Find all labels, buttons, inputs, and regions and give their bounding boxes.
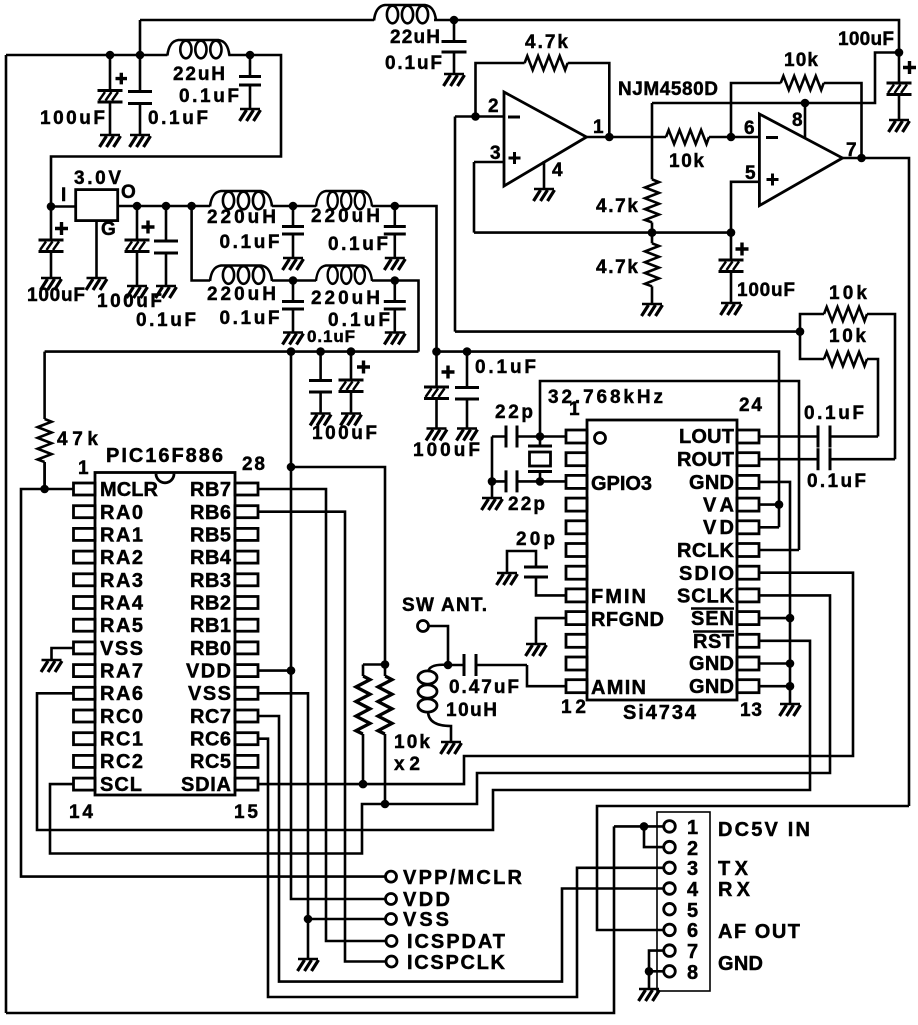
svg-text:RB6: RB6	[190, 502, 231, 524]
svg-text:4.7k: 4.7k	[525, 32, 568, 53]
capacitor 100uF electrolytic at regulator output	[136, 206, 139, 285]
svg-text:SCL: SCL	[100, 774, 142, 796]
svg-text:4.7k: 4.7k	[596, 196, 638, 217]
wire: +5V horizontal rail y=55 left segment	[6, 54, 167, 57]
svg-text:VSS: VSS	[403, 909, 449, 931]
inductor 220uH L6 row2	[316, 266, 372, 284]
svg-text:1: 1	[593, 117, 604, 138]
wire: riser joining top rail y=20 to y=55 rail	[139, 20, 142, 55]
svg-text:0.1uF: 0.1uF	[307, 327, 355, 346]
wire: RC7 to connector RX	[258, 716, 663, 982]
svg-text:RC2: RC2	[100, 751, 143, 773]
svg-text:0.1uF: 0.1uF	[220, 308, 280, 329]
wire: AF OUT run to connector pin6	[597, 806, 909, 930]
svg-text:24: 24	[739, 395, 762, 416]
wire: op1 pin4 to ground	[543, 161, 546, 188]
terminal VPP/MCLR circle	[386, 871, 397, 882]
svg-text:ROUT: ROUT	[677, 449, 734, 471]
svg-text:ICSPCLK: ICSPCLK	[407, 952, 506, 974]
svg-text:RA4: RA4	[100, 593, 144, 615]
capacitor 100uF electrolytic at top right	[898, 53, 901, 120]
plus sign	[55, 222, 68, 235]
wire: 0.47uF to AMIN	[527, 665, 566, 686]
capacitor 100uF electrolytic bias decoupling	[730, 233, 733, 302]
svg-text:32.768kHz: 32.768kHz	[548, 387, 663, 408]
svg-text:14: 14	[69, 802, 93, 823]
label minus op2	[766, 136, 778, 139]
capacitor 0.1uF on VA rail x=467	[466, 352, 469, 428]
connector pin circles	[664, 821, 676, 977]
svg-text:RA2: RA2	[100, 547, 143, 569]
wire: VDD riser x=291	[291, 352, 386, 899]
wire: crystal bottom to GPIO3 pin	[540, 480, 566, 483]
terminal SW ANT. circle	[418, 621, 429, 632]
svg-text:100uF: 100uF	[838, 29, 894, 50]
svg-text:Si4734: Si4734	[623, 702, 697, 724]
svg-text:RC0: RC0	[100, 706, 143, 728]
ground	[426, 429, 447, 441]
capacitor 0.1uF row2 at x=394.8	[393, 281, 396, 332]
Si4734 left pin boxes	[566, 430, 587, 693]
svg-text:6: 6	[687, 920, 698, 942]
svg-text:10k: 10k	[829, 283, 867, 304]
label plus op1	[509, 152, 521, 164]
resistor 4.7k feedback op1	[525, 56, 568, 70]
inductor 220uH L5 row2	[210, 266, 272, 284]
svg-text:22p: 22p	[495, 402, 533, 423]
svg-text:AF OUT: AF OUT	[718, 921, 800, 943]
svg-text:0.1uF: 0.1uF	[179, 86, 239, 107]
terminal VSS circle	[386, 914, 397, 925]
svg-text:NJM4580D: NJM4580D	[618, 79, 718, 100]
svg-text:GND: GND	[689, 676, 734, 698]
svg-text:SEN: SEN	[691, 608, 734, 630]
capacitor 100uF electrolytic on VDD rail x=351	[350, 352, 353, 413]
terminal VDD circle	[386, 894, 397, 905]
svg-text:6: 6	[744, 118, 755, 139]
capacitor 0.1uF ROUT coupling	[818, 448, 830, 470]
wire: Si pin1 to crystal node	[540, 435, 566, 438]
svg-text:0.1uF: 0.1uF	[807, 471, 866, 492]
wire: op2 feedback loop left riser	[731, 83, 781, 137]
svg-text:VD: VD	[703, 517, 734, 539]
capacitor 0.1uF on VDD rail x=320.6	[319, 352, 322, 413]
svg-text:4: 4	[687, 879, 699, 901]
inductor 220uH L4 row1	[316, 191, 372, 209]
svg-text:10uH: 10uH	[446, 700, 497, 721]
svg-text:RA0: RA0	[100, 502, 143, 524]
wire: PIC left VSS to ground	[52, 648, 74, 659]
wire: antenna to LC node	[429, 626, 449, 665]
op-amp U1A triangle	[504, 92, 587, 186]
svg-text:0.47uF: 0.47uF	[449, 677, 519, 698]
capacitor 100uF electrolytic at top left	[109, 55, 112, 134]
svg-text:2: 2	[687, 838, 698, 860]
svg-text:RB4: RB4	[190, 547, 232, 569]
wire: RCLK pin	[759, 549, 799, 552]
svg-text:SCLK: SCLK	[677, 586, 735, 608]
wire: 47k bottom to MCLR	[43, 462, 46, 489]
svg-text:PIC16F886: PIC16F886	[106, 445, 223, 467]
svg-text:RC6: RC6	[190, 729, 231, 751]
wire: RC6 to connector TX	[258, 739, 663, 997]
wire: bias node bus y=232.6	[474, 231, 731, 234]
svg-text:10k: 10k	[829, 326, 866, 347]
plus sign	[142, 221, 155, 234]
capacitor 0.1uF after L1 at x=250	[249, 55, 252, 108]
ground	[130, 135, 151, 147]
regulator U2 3.0V box	[76, 190, 118, 221]
wire: SDIO net staircase to PIC SDIA	[258, 573, 853, 784]
wire: RST net staircase to PIC RA6	[37, 641, 810, 830]
svg-text:RA6: RA6	[100, 683, 143, 705]
label minus op1	[508, 116, 520, 119]
wire: lower divider to ground	[651, 286, 654, 303]
wire: SEN tie to ground rail	[759, 617, 790, 620]
svg-text:RST: RST	[693, 631, 734, 653]
wire: Si GND pin3 riser to grounds	[759, 482, 790, 703]
svg-text:ICSPDAT: ICSPDAT	[407, 931, 505, 953]
wire: regulator output rail y=206	[118, 205, 210, 208]
wire: LOUT cap to riser	[830, 435, 878, 438]
svg-text:GND: GND	[718, 953, 763, 975]
svg-text:47k: 47k	[57, 429, 98, 450]
svg-text:5: 5	[687, 900, 698, 922]
svg-text:RB1: RB1	[190, 615, 231, 637]
svg-text:220uH: 220uH	[207, 284, 276, 305]
wire: summing node down to 10k lower	[800, 332, 824, 359]
resistor 10k lower (LOUT)	[824, 352, 867, 366]
svg-text:0.1uF: 0.1uF	[220, 232, 280, 253]
capacitor 0.1uF row1 at x=394.8	[393, 206, 396, 257]
svg-text:RC7: RC7	[190, 706, 231, 728]
svg-text:RA5: RA5	[100, 615, 143, 637]
wire: 10k upper right side down to ROUT cap	[867, 314, 895, 459]
wire: VA rail y=351.6 from row1 riser to Si4734 VA	[437, 352, 780, 528]
svg-text:VDD: VDD	[403, 889, 450, 911]
svg-text:RCLK: RCLK	[677, 540, 735, 562]
svg-text:100uF: 100uF	[97, 291, 162, 312]
svg-text:3.0V: 3.0V	[74, 168, 121, 189]
ground	[127, 286, 148, 298]
svg-text:RB7: RB7	[190, 479, 231, 501]
connector J1 box	[657, 812, 710, 991]
resistor 10k upper (ROUT)	[824, 307, 867, 321]
ground	[384, 333, 405, 345]
capacitor 22p lower	[492, 480, 540, 483]
capacitor 0.1uF row1 at x=293	[292, 206, 295, 257]
svg-text:RB2: RB2	[190, 593, 231, 615]
svg-text:220uH: 220uH	[311, 206, 380, 227]
ground	[310, 414, 331, 426]
svg-text:RC5: RC5	[190, 751, 231, 773]
svg-text:RA7: RA7	[100, 661, 143, 683]
svg-text:GPIO3: GPIO3	[591, 473, 652, 495]
svg-text:100uF: 100uF	[737, 280, 795, 301]
ground	[240, 109, 261, 121]
ground	[283, 333, 304, 345]
wire: LOUT pin to coupling cap	[759, 435, 818, 438]
ground	[86, 278, 107, 290]
terminal ICSPDAT circle	[386, 936, 397, 947]
wire: DC5V to pin1	[614, 825, 664, 828]
IC U3 Si4734 body	[587, 420, 737, 700]
ground	[721, 303, 742, 315]
wire: RB7 to ICSPDAT	[258, 489, 386, 941]
wire: row2 feed riser from row1	[192, 206, 210, 281]
wire: VDD rail y=351.6 (PIC side)	[45, 350, 419, 353]
ground	[41, 278, 62, 290]
svg-text:SW ANT.: SW ANT.	[402, 595, 487, 616]
IC U4 PIC16F886 body	[95, 473, 235, 796]
wire: top +5V rail y=20 left segment	[140, 19, 374, 22]
svg-text:10k: 10k	[784, 50, 818, 71]
wire: SCLK net staircase to PIC SCL	[50, 595, 830, 853]
svg-text:SDIA: SDIA	[181, 774, 231, 796]
wire: op2 output to right edge riser	[843, 158, 910, 806]
ground	[441, 742, 462, 754]
wire: feedback right down to output	[824, 83, 862, 158]
ground	[889, 120, 910, 132]
svg-text:22uH: 22uH	[390, 27, 440, 48]
svg-text:RC1: RC1	[100, 729, 143, 751]
capacitor 100uF electrolytic on VA rail x=436.5	[435, 352, 438, 428]
capacitor 0.1uF LOUT coupling	[818, 426, 830, 448]
svg-text:12: 12	[561, 697, 586, 718]
svg-text:RB3: RB3	[190, 570, 231, 592]
wire: VA pin	[759, 503, 779, 506]
ground	[283, 258, 304, 270]
wire: bottom +5V rail to connector pin1 riser	[6, 826, 614, 1013]
ground	[482, 498, 503, 510]
resistor 10k feedback op2	[781, 76, 824, 90]
wire: GND pin11 tie	[759, 662, 790, 665]
svg-text:220uH: 220uH	[207, 207, 276, 228]
svg-text:RX: RX	[718, 879, 751, 901]
wire: pin1-pin2 tie	[644, 826, 664, 847]
wire: MCLR net to VPP terminal	[21, 489, 386, 877]
svg-text:RFGND: RFGND	[591, 609, 664, 631]
svg-text:VSS: VSS	[188, 683, 231, 705]
svg-text:8: 8	[687, 962, 698, 984]
ground	[384, 258, 405, 270]
resistor 10k pull-up left (SDA)	[362, 665, 365, 785]
resistor 4.7k lower bias divider	[645, 243, 659, 286]
wire: rail after L1 to corner down to regulator input loop	[51, 55, 281, 207]
wire: V+ branch down to bias divider top	[651, 103, 654, 179]
capacitor 100uF electrolytic at regulator input	[50, 207, 53, 278]
ground	[497, 573, 518, 585]
ground	[457, 429, 478, 441]
wire: ROUT pin to coupling cap	[759, 458, 818, 461]
wire: crystal node riser to RCLK loop	[540, 381, 799, 550]
overline RST	[693, 630, 734, 633]
wire: VD pin	[759, 526, 779, 529]
wire: row2 to corner riser into VDD rail	[372, 281, 419, 352]
svg-text:I: I	[61, 185, 66, 206]
inductor 22uH L1	[167, 40, 229, 58]
wire: op1 pin3 riser to bias node	[473, 162, 476, 233]
ground	[642, 304, 663, 316]
svg-text:22uH: 22uH	[173, 64, 225, 85]
pin1 index circle	[595, 433, 606, 444]
wire: ROUT cap to riser	[830, 458, 895, 461]
svg-text:15: 15	[234, 802, 258, 823]
resistor 47k pull-up	[43, 352, 46, 489]
svg-text:RA3: RA3	[100, 570, 143, 592]
svg-text:100uF: 100uF	[27, 285, 85, 306]
PIC16F886 left pin boxes	[74, 483, 96, 790]
svg-text:G: G	[101, 219, 116, 240]
svg-text:20p: 20p	[516, 529, 555, 550]
svg-text:100uF: 100uF	[413, 440, 480, 461]
wire: pull-up tops to VDD riser	[291, 467, 385, 665]
wire: op1 output to 10k	[587, 136, 667, 139]
overline SEN	[691, 607, 734, 610]
svg-text:0.1uF: 0.1uF	[475, 357, 536, 378]
svg-text:FMIN: FMIN	[591, 586, 646, 608]
svg-text:10k: 10k	[669, 151, 704, 172]
svg-text:GND: GND	[689, 472, 734, 494]
svg-text:100uF: 100uF	[40, 108, 105, 129]
wire: regulator input	[51, 205, 76, 208]
ground	[341, 414, 362, 426]
svg-text:3: 3	[687, 858, 698, 880]
svg-text:7: 7	[687, 941, 698, 963]
wire: op1 feedback loop	[476, 63, 525, 117]
wire: from 100uF node left and down to op-amp V+ feed y=103	[652, 53, 899, 104]
wire: pin7-pin8 tie to ground	[649, 951, 664, 972]
wire: top rail after L2 to top-right corner down to 100uF node	[434, 20, 899, 53]
plus sign for 100uF	[116, 73, 128, 85]
wire: 22p junction to ground	[491, 481, 494, 497]
svg-text:22p: 22p	[508, 494, 545, 515]
Si4734 right pin boxes	[737, 430, 759, 693]
svg-text:TX: TX	[718, 858, 749, 880]
ground	[444, 74, 465, 86]
svg-text:DC5V IN: DC5V IN	[718, 819, 810, 841]
wire: 10k to op2 pin6	[709, 136, 759, 139]
wire: op1 input riser from summing bus	[454, 117, 457, 332]
svg-text:RB5: RB5	[190, 525, 231, 547]
plus sign	[903, 61, 916, 74]
svg-text:4: 4	[552, 160, 563, 181]
svg-text:220uH: 220uH	[311, 288, 380, 309]
svg-text:O: O	[121, 182, 136, 203]
svg-text:0.1uF: 0.1uF	[328, 234, 388, 255]
svg-text:28: 28	[242, 454, 265, 475]
svg-text:MCLR: MCLR	[100, 479, 159, 501]
svg-text:AMIN: AMIN	[591, 677, 646, 699]
wire: pin8 riser from V+ rail	[804, 103, 807, 138]
inductor 220uH L3 row1	[210, 191, 272, 209]
svg-text:0.1uF: 0.1uF	[385, 53, 442, 74]
resistor 10k between op amps	[666, 130, 709, 144]
capacitor 0.1uF row2 at x=293	[292, 281, 295, 332]
svg-text:RA1: RA1	[100, 525, 143, 547]
wire: right VSS to terminal and ground	[258, 693, 386, 919]
wire: feedback right side down to output	[568, 63, 610, 137]
svg-text:0.1uF: 0.1uF	[148, 108, 208, 129]
svg-text:RB0: RB0	[190, 638, 231, 660]
wire: summing node riser up to 10k upper	[800, 314, 824, 332]
ground	[100, 135, 121, 147]
svg-text:VPP/MCLR: VPP/MCLR	[403, 867, 523, 889]
svg-text:0.1uF: 0.1uF	[136, 310, 196, 331]
wire: summing bus y=331.6	[455, 330, 800, 333]
wire: RFGND to ground	[536, 618, 566, 643]
capacitor 0.1uF at regulator output	[165, 206, 168, 285]
wire: op2 non-inverting input from bias	[731, 182, 759, 233]
notch	[156, 474, 174, 483]
capacitor 0.47uF	[448, 664, 527, 667]
resistor 4.7k upper bias divider	[645, 179, 659, 222]
svg-text:SDIO: SDIO	[679, 563, 734, 585]
svg-text:VSS: VSS	[100, 638, 143, 660]
ground	[41, 660, 62, 672]
plus sign	[736, 243, 749, 256]
svg-text:13: 13	[740, 700, 762, 721]
ground	[780, 704, 801, 716]
wire: regulator ground pin	[95, 221, 98, 277]
svg-text:1: 1	[78, 458, 89, 479]
svg-text:0.1uF: 0.1uF	[804, 403, 864, 424]
ground	[156, 286, 177, 298]
svg-text:100uF: 100uF	[312, 423, 377, 444]
wire: op1 non-inverting input	[474, 161, 504, 164]
capacitor 22p upper	[492, 435, 540, 438]
svg-text:4.7k: 4.7k	[596, 257, 638, 278]
wire: GND pin12 tie	[759, 685, 790, 688]
svg-text:VDD: VDD	[186, 661, 231, 683]
ground	[534, 189, 555, 201]
wire: divider mid lead	[651, 222, 654, 243]
wire: 22p left corner down	[491, 437, 494, 482]
svg-text:10k: 10k	[394, 732, 430, 753]
wire: 10k lower right side down to LOUT cap	[867, 359, 878, 437]
plus sign	[357, 361, 370, 374]
capacitor 0.1uF at x=140	[139, 55, 142, 134]
ground	[298, 959, 319, 971]
PIC16F886 right pin boxes	[235, 483, 258, 790]
terminal ICSPCLK circle	[386, 956, 397, 967]
svg-text:x2: x2	[394, 754, 420, 775]
wire: 20p top to ground jog	[507, 551, 536, 572]
wire: row1 between inductors	[272, 205, 316, 208]
ground	[639, 989, 660, 1001]
wire: row1 to corner riser	[372, 206, 437, 352]
crystal 32.768kHz	[539, 437, 542, 482]
wire: RB6 to ICSPCLK	[258, 512, 386, 962]
plus sign	[442, 366, 455, 379]
op-amp U1B triangle	[759, 114, 842, 206]
svg-text:2: 2	[488, 96, 499, 117]
svg-text:LOUT: LOUT	[679, 426, 734, 448]
wire: op1 inverting input y=116.5	[455, 115, 504, 118]
resistor 10k pull-up right (SCL)	[384, 665, 387, 805]
capacitor 0.1uF after L2 at x=454	[453, 20, 456, 73]
wire: +5V left border rail from top rail down left edge to bottom	[5, 55, 8, 1013]
inductor 10uH vertical	[428, 665, 448, 672]
svg-text:VA: VA	[703, 495, 734, 517]
inductor 22uH L2	[374, 5, 436, 23]
svg-text:1: 1	[687, 817, 698, 839]
wire: VDD pin to VDD riser	[258, 669, 291, 672]
svg-text:8: 8	[792, 110, 803, 131]
capacitor 20p at FMIN	[536, 577, 566, 595]
wire: row2 between inductors	[272, 279, 316, 282]
label plus op2	[767, 174, 779, 186]
